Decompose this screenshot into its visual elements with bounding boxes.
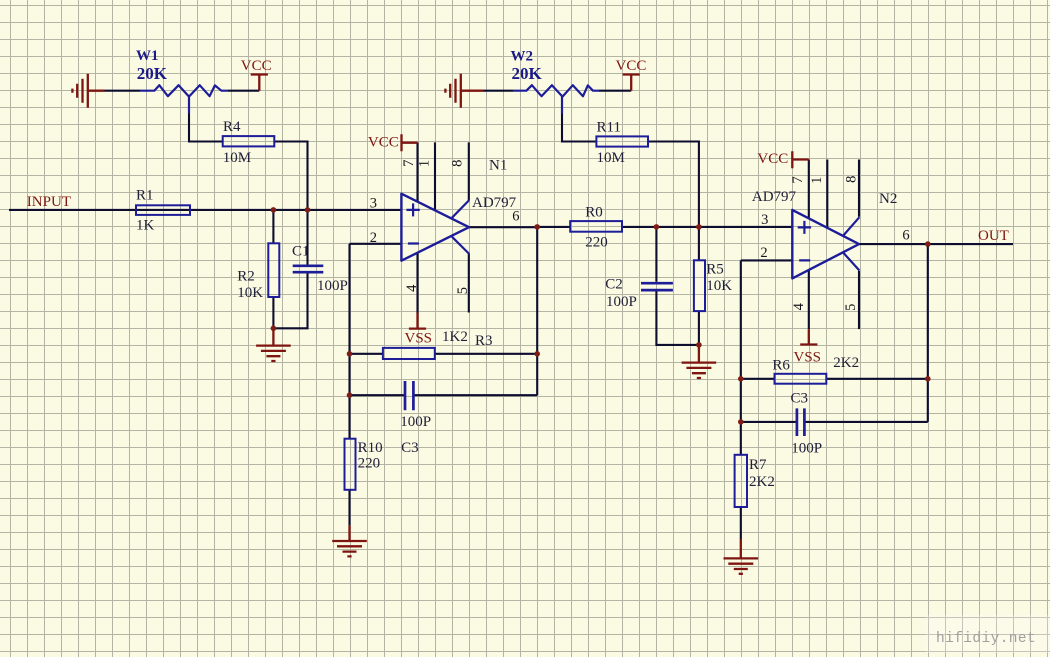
- svg-text:6: 6: [902, 228, 909, 244]
- svg-text:100P: 100P: [317, 278, 348, 294]
- svg-text:1: 1: [417, 160, 433, 167]
- svg-text:OUT: OUT: [978, 228, 1009, 244]
- svg-text:VCC: VCC: [616, 58, 647, 74]
- svg-text:2: 2: [760, 245, 767, 261]
- svg-text:R1: R1: [136, 188, 154, 204]
- svg-text:10K: 10K: [237, 285, 263, 301]
- svg-text:C3: C3: [401, 440, 419, 456]
- svg-text:100P: 100P: [791, 440, 822, 456]
- svg-text:2: 2: [370, 230, 377, 246]
- svg-text:hifidiy.net: hifidiy.net: [936, 631, 1036, 647]
- svg-text:1K2: 1K2: [442, 329, 468, 345]
- svg-text:R7: R7: [749, 457, 767, 473]
- svg-text:220: 220: [585, 235, 608, 251]
- svg-text:VSS: VSS: [405, 331, 433, 347]
- svg-text:220: 220: [358, 455, 381, 471]
- svg-text:2K2: 2K2: [749, 474, 775, 490]
- svg-text:8: 8: [449, 160, 465, 167]
- svg-text:5: 5: [455, 287, 471, 294]
- svg-text:R10: R10: [358, 440, 383, 456]
- svg-text:INPUT: INPUT: [27, 194, 71, 210]
- svg-text:C3: C3: [791, 390, 809, 406]
- svg-text:VSS: VSS: [794, 350, 822, 366]
- svg-text:4: 4: [791, 302, 807, 310]
- svg-text:N1: N1: [489, 158, 507, 174]
- svg-text:8: 8: [844, 176, 860, 183]
- svg-text:20K: 20K: [137, 64, 168, 83]
- svg-text:R2: R2: [237, 269, 255, 285]
- svg-text:R6: R6: [772, 358, 790, 374]
- svg-text:C1: C1: [292, 243, 310, 259]
- svg-text:7: 7: [401, 160, 417, 167]
- svg-text:VCC: VCC: [241, 58, 272, 74]
- svg-text:6: 6: [512, 208, 519, 224]
- svg-text:AD797: AD797: [472, 195, 517, 211]
- svg-text:4: 4: [404, 284, 420, 292]
- svg-text:2K2: 2K2: [833, 355, 859, 371]
- svg-text:3: 3: [761, 212, 768, 228]
- svg-text:W2: W2: [511, 48, 534, 64]
- svg-text:10M: 10M: [597, 150, 625, 166]
- svg-text:7: 7: [790, 176, 806, 183]
- svg-text:R0: R0: [585, 205, 603, 221]
- svg-text:5: 5: [843, 304, 859, 311]
- svg-text:20K: 20K: [512, 64, 543, 83]
- svg-text:3: 3: [370, 196, 377, 212]
- svg-text:N2: N2: [879, 191, 897, 207]
- svg-text:VCC: VCC: [368, 135, 399, 151]
- svg-text:R11: R11: [597, 120, 621, 136]
- svg-text:R5: R5: [706, 261, 724, 277]
- svg-text:W1: W1: [136, 48, 159, 64]
- svg-text:VCC: VCC: [757, 151, 788, 167]
- svg-text:100P: 100P: [606, 294, 637, 310]
- svg-text:R4: R4: [223, 119, 241, 135]
- svg-text:1K: 1K: [136, 218, 155, 234]
- svg-text:AD797: AD797: [752, 189, 797, 205]
- svg-text:C2: C2: [605, 276, 623, 292]
- svg-text:R3: R3: [475, 333, 493, 349]
- svg-text:1: 1: [809, 177, 825, 184]
- svg-text:100P: 100P: [400, 414, 431, 430]
- svg-text:10K: 10K: [706, 278, 732, 294]
- svg-text:10M: 10M: [223, 150, 251, 166]
